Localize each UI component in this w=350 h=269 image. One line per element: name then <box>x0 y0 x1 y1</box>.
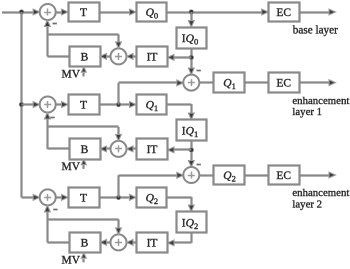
svg-text:enhancement: enhancement <box>292 187 349 199</box>
svg-text:base layer: base layer <box>293 24 338 36</box>
svg-text:EC: EC <box>276 170 291 182</box>
svg-text:EC: EC <box>276 78 291 90</box>
svg-text:enhancement: enhancement <box>292 95 349 107</box>
svg-text:MV: MV <box>62 69 81 81</box>
svg-text:MV: MV <box>62 161 81 173</box>
svg-text:B: B <box>81 52 89 64</box>
svg-text:B: B <box>81 144 89 156</box>
svg-text:layer 2: layer 2 <box>292 198 322 210</box>
svg-text:IT: IT <box>147 238 158 250</box>
svg-text:IT: IT <box>147 144 158 156</box>
svg-text:T: T <box>80 193 87 205</box>
svg-text:B: B <box>81 238 89 250</box>
svg-text:EC: EC <box>276 7 291 19</box>
svg-text:layer 1: layer 1 <box>292 106 322 118</box>
svg-text:T: T <box>80 7 87 19</box>
svg-text:IT: IT <box>147 52 158 64</box>
svg-text:T: T <box>80 100 87 112</box>
svg-text:MV: MV <box>62 255 81 267</box>
